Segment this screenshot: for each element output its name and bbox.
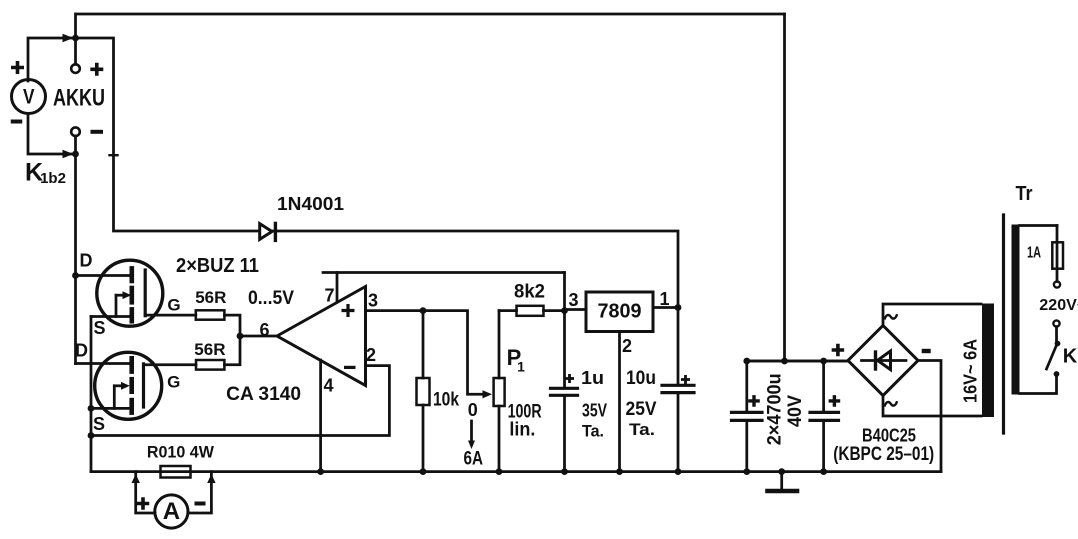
wire: diode cathode to regulator output node xyxy=(272,231,678,307)
svg-text:10u: 10u xyxy=(626,368,656,389)
wire: branch to 1N4001 xyxy=(76,38,260,231)
wire: left drop from top rail to + terminal xyxy=(74,14,77,64)
wire: bridge AC bottom xyxy=(883,396,981,417)
label: ammeter minus xyxy=(195,502,206,506)
node: Q2 source junction xyxy=(88,405,95,412)
fuse 1A xyxy=(1056,226,1059,282)
switch K xyxy=(1055,327,1058,341)
svg-text:1: 1 xyxy=(517,359,525,375)
svg-text:2×BUZ 11: 2×BUZ 11 xyxy=(176,255,259,277)
svg-text:6A: 6A xyxy=(464,449,484,470)
voltmeter V xyxy=(12,80,46,114)
svg-text:2: 2 xyxy=(366,345,376,365)
transistor Q2 channel segments xyxy=(129,358,134,371)
wire: primary top lead xyxy=(1020,224,1058,227)
terminal: AKKU plus xyxy=(71,64,80,73)
capacitor C4 4700u xyxy=(822,361,825,411)
wire: gate resistors to node 6 xyxy=(224,315,277,365)
wire: bridge AC top xyxy=(883,304,981,326)
svg-text:3: 3 xyxy=(368,291,378,311)
resistor R2 56R (lower) xyxy=(196,360,224,370)
wire: pin 4 to ground rail xyxy=(319,360,322,472)
wire: Q2 gate lead xyxy=(144,363,197,366)
node: battery minus junction xyxy=(72,151,79,158)
wire: branch tick mark xyxy=(110,154,118,156)
wire: voltmeter bottom branch xyxy=(28,114,76,154)
wire: Q1 drain lead xyxy=(76,274,132,277)
resistor R010 4W shunt xyxy=(161,466,191,478)
resistor 8k2 xyxy=(499,309,565,312)
wire: reservoir node bus xyxy=(747,360,848,363)
svg-text:(KBPC 25–01): (KBPC 25–01) xyxy=(833,444,934,465)
svg-text:4: 4 xyxy=(323,376,333,396)
label: C2 plus xyxy=(681,375,690,384)
node: P1 bottom xyxy=(496,468,503,475)
label: voltmeter plus xyxy=(11,61,24,74)
svg-text:G: G xyxy=(167,373,180,392)
transistor Q1 (upper BUZ11) xyxy=(97,260,163,326)
wire: common source rail xyxy=(90,317,93,472)
svg-text:Tr: Tr xyxy=(1016,183,1033,205)
svg-text:K: K xyxy=(1063,346,1078,368)
wire: pin 7 stub xyxy=(336,273,339,303)
potentiometer P1 100R xyxy=(498,311,501,472)
svg-text:3: 3 xyxy=(568,290,578,310)
label: bridge AC bottom xyxy=(885,401,898,406)
op-amp U1 CA3140 xyxy=(277,287,366,386)
label: C1 plus xyxy=(565,374,574,383)
resistor R1 56R (upper) xyxy=(196,310,225,319)
arrow: into minus junction xyxy=(63,150,74,158)
bridge internal diode xyxy=(862,359,907,362)
node: pin 4 at ground rail xyxy=(317,468,324,475)
svg-text:7809: 7809 xyxy=(598,301,642,323)
resistor 10k xyxy=(422,311,425,472)
svg-text:40V: 40V xyxy=(785,395,806,427)
svg-text:56R: 56R xyxy=(195,288,226,307)
transformer core xyxy=(1002,215,1005,433)
wire: 7809 pin 2 to ground xyxy=(618,332,621,472)
capacitor C2 10u xyxy=(677,308,680,385)
wire: right drop from top rail to reservoir node xyxy=(783,14,786,361)
svg-text:16V~ 6A: 16V~ 6A xyxy=(960,339,981,403)
transistor Q2 gate bar xyxy=(142,364,145,407)
ammeter A xyxy=(155,495,188,528)
svg-text:0...5V: 0...5V xyxy=(248,288,294,309)
label: bridge plus xyxy=(832,344,845,357)
transistor Q1 gate bar xyxy=(144,270,147,316)
terminal: mains top xyxy=(1054,281,1060,287)
svg-text:2: 2 xyxy=(622,336,632,356)
transistor Q2 bulk arrow xyxy=(114,384,122,387)
node: 7809 ground pin at rail xyxy=(616,468,623,475)
wire: pin 2 lead and feedback to source rail xyxy=(91,366,389,436)
label: bridge AC top xyxy=(885,314,898,319)
arrow: 0..6A annotation xyxy=(470,421,473,443)
arrow: into plus junction xyxy=(63,34,74,42)
svg-text:1u: 1u xyxy=(581,368,604,388)
capacitor C3 4700u xyxy=(745,361,748,411)
svg-text:R010 4W: R010 4W xyxy=(147,443,215,462)
ground xyxy=(780,472,783,490)
svg-text:Ta.: Ta. xyxy=(582,422,604,441)
svg-text:S: S xyxy=(93,318,105,338)
node 6 xyxy=(237,333,244,340)
transformer primary winding xyxy=(1012,225,1020,395)
svg-text:A: A xyxy=(163,498,180,525)
node: regulator input xyxy=(561,307,568,314)
label: terminal minus xyxy=(91,130,104,134)
terminal: AKKU minus xyxy=(71,127,80,136)
node: C2 bottom xyxy=(675,468,682,475)
svg-text:56R: 56R xyxy=(194,340,225,359)
label: C3 plus xyxy=(748,395,760,407)
label: op-amp plus input xyxy=(342,304,355,317)
diode D1 1N4001 xyxy=(260,224,272,240)
node: C1 bottom xyxy=(561,468,568,475)
svg-text:AKKU: AKKU xyxy=(53,85,105,112)
wire: bridge plus lead xyxy=(747,360,848,363)
transformer Tr secondary winding xyxy=(982,304,994,418)
svg-text:lin.: lin. xyxy=(509,420,535,441)
regulator U2 7809 xyxy=(565,308,679,310)
terminal: mains bottom xyxy=(1053,320,1059,326)
wire: Q2 source stub xyxy=(91,407,132,410)
svg-text:V: V xyxy=(23,86,35,109)
svg-text:25V: 25V xyxy=(626,399,657,420)
label: terminal plus xyxy=(90,63,103,76)
svg-text:S: S xyxy=(93,414,105,434)
wire: pin 3 lead xyxy=(366,311,488,395)
svg-text:Ta.: Ta. xyxy=(629,420,655,439)
svg-text:35V: 35V xyxy=(582,401,607,421)
wire: regulator input vertical xyxy=(563,273,566,388)
node: regulator output xyxy=(675,304,682,311)
label: bridge minus xyxy=(922,349,931,353)
svg-text:CA 3140: CA 3140 xyxy=(226,384,301,405)
svg-text:0: 0 xyxy=(468,400,478,420)
svg-text:1N4001: 1N4001 xyxy=(277,194,344,214)
label: voltmeter minus xyxy=(11,120,23,124)
wire: Q2 drain lead xyxy=(76,362,132,365)
svg-text:8k2: 8k2 xyxy=(514,282,545,303)
svg-text:2×4700u: 2×4700u xyxy=(765,373,786,445)
svg-text:10k: 10k xyxy=(433,390,459,411)
node: 10k top xyxy=(420,307,427,314)
svg-text:G: G xyxy=(167,296,180,315)
svg-text:D: D xyxy=(75,341,88,361)
wire: Q1 source stub xyxy=(91,315,132,318)
wire: ground rail xyxy=(91,470,941,473)
svg-text:1A: 1A xyxy=(1027,245,1041,262)
node: reservoir junctions xyxy=(743,358,750,365)
node: 10k bottom xyxy=(420,468,427,475)
wire: Q1 gate lead xyxy=(145,314,196,317)
wire: voltmeter top branch xyxy=(28,38,76,81)
wire: minus terminal to drain rail xyxy=(74,136,77,364)
svg-text:7: 7 xyxy=(324,286,334,306)
svg-text:1b2: 1b2 xyxy=(40,170,66,187)
wire: bridge minus lead to ground rail xyxy=(918,361,941,472)
wire: pin 7 rail to regulator input xyxy=(323,271,565,274)
transistor Q1 bulk tie to source xyxy=(115,295,118,316)
node: battery plus junction xyxy=(72,35,79,42)
wire: primary bottom lead xyxy=(1020,374,1057,394)
node: Q1 drain junction xyxy=(72,272,79,279)
capacitor C1 1u plates xyxy=(551,388,578,395)
svg-text:D: D xyxy=(80,251,93,271)
arrow: wiper into P1 xyxy=(483,390,493,398)
transistor Q2 (lower BUZ11) xyxy=(95,352,162,419)
op-amp minus input mark xyxy=(344,366,356,369)
transistor Q2 bulk tie to source xyxy=(113,386,116,409)
label: C4 plus xyxy=(829,395,841,407)
svg-text:6: 6 xyxy=(259,320,269,340)
bridge rectifier B40C25 xyxy=(848,326,918,396)
wire: ammeter loop left xyxy=(136,472,155,513)
wire: ammeter loop right xyxy=(188,472,211,513)
wire: top supply rail xyxy=(76,13,785,16)
svg-text:220V~: 220V~ xyxy=(1039,297,1078,314)
transistor Q1 channel segments xyxy=(130,268,135,281)
svg-text:B40C25: B40C25 xyxy=(862,426,916,446)
svg-text:1: 1 xyxy=(659,289,669,309)
label: ammeter plus xyxy=(137,497,150,510)
node: feedback junction xyxy=(88,432,95,439)
transistor Q1 bulk arrow xyxy=(116,294,124,297)
